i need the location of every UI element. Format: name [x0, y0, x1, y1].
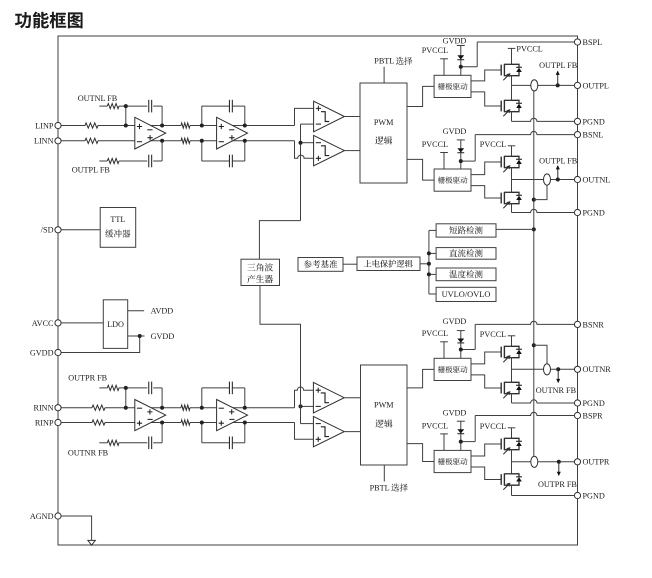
- wire feedback top: [153, 105, 162, 107]
- svg-text:LINN: LINN: [34, 137, 54, 146]
- svg-text:AVDD: AVDD: [151, 307, 174, 316]
- gate driver box bridge2: [434, 169, 471, 191]
- svg-text:PWM: PWM: [374, 118, 394, 127]
- wire low drain to output bridge1: [511, 85, 513, 100]
- current sense oval OUTPR: [531, 456, 538, 467]
- svg-text:PVCCL: PVCCL: [422, 46, 448, 55]
- wire triangle to comp1 minus: [301, 123, 314, 125]
- resistor interstage B: [181, 420, 190, 425]
- power GVDD bar bridge3: [457, 330, 465, 332]
- svg-text:BSPL: BSPL: [583, 38, 603, 47]
- wire detect spine: [428, 230, 430, 294]
- feedback tap OUTPL: [557, 74, 559, 86]
- svg-text:OUTPL FB: OUTPL FB: [539, 61, 578, 70]
- power PVCCL drain bridge3: [508, 335, 516, 337]
- wire low drain to output bridge3: [511, 369, 513, 382]
- wire signal to comparator 3: [295, 387, 314, 408]
- wire high source to output bridge3: [511, 358, 513, 370]
- comparator 1: [314, 101, 345, 132]
- wire GVDD vertical bridge1: [460, 46, 462, 76]
- wire PGND line bridge4: [512, 495, 575, 497]
- svg-text:OUTPR FB: OUTPR FB: [68, 373, 107, 382]
- resistor input B: [92, 420, 105, 425]
- gate driver box bridge1: [434, 75, 471, 97]
- wire reference to protection: [343, 263, 357, 265]
- junction GVDD bridge1: [459, 65, 463, 69]
- wire comp1 out: [344, 116, 360, 118]
- gate driver box bridge3: [434, 358, 471, 380]
- wire comp4 out: [344, 431, 360, 433]
- feedback cap3: [228, 100, 230, 113]
- svg-text:AVCC: AVCC: [32, 319, 54, 328]
- wire driver to high gate bridge4: [471, 444, 501, 456]
- PWM logic box top: [360, 83, 407, 183]
- svg-text:OUTNR FB: OUTNR FB: [68, 449, 109, 458]
- DC detect box: [436, 248, 496, 260]
- wire high source to output bridge4: [511, 450, 513, 462]
- junction sense OUTNR elbow: [532, 343, 536, 347]
- wire high source to output bridge2: [511, 168, 513, 180]
- svg-text:PGND: PGND: [583, 399, 605, 408]
- comparator 4: [313, 416, 344, 446]
- pin BSNL: [574, 132, 580, 138]
- svg-text:PVCCL: PVCCL: [422, 329, 448, 338]
- svg-text:AGND: AGND: [30, 512, 54, 521]
- svg-text:OUTPR: OUTPR: [583, 458, 610, 467]
- wire low drain to output bridge2: [511, 180, 513, 193]
- wire fb cap2 bottom: [201, 423, 203, 443]
- svg-text:BSNR: BSNR: [583, 320, 605, 329]
- gate driver box bridge4: [434, 450, 471, 472]
- pin AGND: [55, 513, 61, 519]
- UVLO/OVLO box: [436, 287, 496, 301]
- pin /SD: [55, 227, 61, 233]
- wire low source to PGND bridge3: [511, 394, 513, 403]
- wire BS rail bridge2: [461, 160, 475, 162]
- feedback stub bottom resistor: [99, 160, 107, 162]
- comparator 3: [313, 382, 344, 413]
- wire signal to comparator 2: [295, 141, 314, 159]
- wire driver to high gate bridge1: [471, 70, 501, 81]
- wire OUTNR sense elbow: [534, 345, 547, 363]
- wire comp2 out: [344, 150, 360, 152]
- svg-text:PBTL: PBTL: [370, 483, 390, 492]
- svg-text:PVCCL: PVCCL: [480, 330, 506, 339]
- transistor Q8 low-side: [500, 474, 502, 485]
- wire signal to comparator 1: [295, 108, 314, 125]
- wire comp3 out: [344, 397, 360, 399]
- op-amp second stage: [217, 117, 248, 149]
- feedback cap bottom: [148, 155, 150, 168]
- junction GVDD bridge4: [459, 440, 463, 444]
- wire output line bridge1: [512, 84, 575, 86]
- svg-text:GVDD: GVDD: [443, 37, 467, 46]
- IC boundary box: [58, 36, 578, 545]
- wire output line bridge3: [512, 368, 575, 370]
- triangle wave generator box: [241, 259, 280, 285]
- svg-text:UVLO/OVLO: UVLO/OVLO: [442, 290, 491, 299]
- svg-text:OUTNL: OUTNL: [583, 175, 611, 184]
- wire driver to low gate bridge3: [471, 375, 501, 388]
- pin AVCC: [55, 320, 61, 326]
- wire GVDD vertical bridge2: [460, 140, 462, 169]
- wire GVDD vertical bridge3: [460, 331, 462, 359]
- diode GVDD bridge1: [457, 55, 464, 59]
- svg-text:GVDD: GVDD: [30, 348, 54, 357]
- svg-text:OUTPL FB: OUTPL FB: [72, 166, 111, 175]
- feedback cap4: [228, 437, 230, 450]
- wire triangle top distribution: [259, 221, 300, 260]
- temperature detect box: [436, 268, 496, 281]
- wire triangle to comp4 minus: [301, 423, 314, 425]
- power GVDD bar bridge1: [457, 45, 465, 47]
- feedback tap OUTPR: [558, 462, 560, 473]
- wire BS rail bridge4: [461, 441, 475, 443]
- feedback cap4: [228, 155, 230, 168]
- pin PGND: [574, 209, 580, 215]
- transistor Q5 high-side: [500, 347, 502, 358]
- wire low drain to output bridge4: [511, 462, 513, 474]
- wire signal to comparator 4: [295, 423, 314, 440]
- feedback cap bottom: [148, 437, 150, 450]
- feedback cap top: [148, 100, 150, 113]
- pin OUTPR: [574, 459, 580, 465]
- feedback stub top resistor: [99, 387, 107, 389]
- junction GVDD bridge3: [459, 348, 463, 352]
- power PVCCL drain bridge1: [508, 47, 516, 49]
- wire low source to PGND bridge4: [511, 485, 513, 495]
- wire feedback bottom: [153, 442, 162, 444]
- power PVCCL bar bridge3: [440, 341, 448, 343]
- wire BS rail bridge3: [461, 349, 475, 351]
- power GVDD bar bridge4: [457, 420, 465, 422]
- pin OUTNR: [574, 366, 580, 372]
- feedback cap top: [148, 382, 150, 395]
- power PVCCL bar bridge4: [440, 433, 448, 435]
- wire low source to PGND bridge1: [511, 112, 513, 122]
- diode GVDD bridge2: [457, 148, 464, 152]
- diode GVDD bridge4: [457, 429, 464, 433]
- resistor input B: [85, 138, 98, 143]
- wire driver to high gate bridge3: [471, 352, 501, 364]
- transistor Q2 low-side: [500, 101, 502, 112]
- svg-text:OUTPL: OUTPL: [583, 81, 609, 90]
- power PVCCL drain bridge2: [508, 145, 516, 147]
- protection logic box: [357, 257, 420, 271]
- wire fb cap2 top: [201, 388, 203, 408]
- pin BSPR: [574, 412, 580, 418]
- feedback tap OUTNR: [557, 369, 559, 380]
- wire input line B: [61, 422, 92, 424]
- svg-text:OUTNR FB: OUTNR FB: [536, 386, 577, 395]
- svg-text:PGND: PGND: [583, 117, 605, 126]
- pin PGND: [574, 400, 580, 406]
- pin PGND: [574, 492, 580, 498]
- resistor input A: [92, 405, 105, 410]
- LDO box: [103, 300, 127, 349]
- wire PGND line bridge2: [512, 209, 575, 212]
- pin LINP: [55, 122, 61, 128]
- pin BSNR: [574, 321, 580, 327]
- pin GVDD: [55, 349, 61, 355]
- svg-text:GVDD: GVDD: [151, 332, 175, 341]
- svg-text:PVCCL: PVCCL: [516, 44, 542, 53]
- wire driver to low gate bridge2: [471, 186, 501, 198]
- wire triangle bottom distribution: [260, 286, 301, 424]
- pin RINN: [55, 405, 61, 411]
- svg-text:PBTL: PBTL: [374, 57, 394, 66]
- wire high source to output bridge1: [511, 76, 513, 86]
- pin LINN: [55, 138, 61, 144]
- transistor Q3 high-side: [500, 157, 502, 168]
- svg-text:PGND: PGND: [583, 208, 605, 217]
- resistor input A: [85, 123, 98, 128]
- pin OUTNL: [574, 176, 580, 182]
- wire short-circuit detect to sense: [496, 228, 534, 230]
- svg-text:RINP: RINP: [35, 418, 54, 427]
- current sense oval OUTNL: [544, 174, 551, 185]
- short-circuit detect box: [436, 224, 496, 237]
- svg-text:TTL: TTL: [110, 215, 125, 224]
- junction sense to short-circuit detect: [532, 227, 536, 231]
- wire PGND line bridge1: [512, 118, 575, 121]
- TTL buffer box: [100, 208, 136, 248]
- diode GVDD bridge3: [457, 339, 464, 343]
- svg-text:PGND: PGND: [583, 491, 605, 500]
- wire input line B: [61, 140, 85, 142]
- svg-text:GVDD: GVDD: [443, 317, 467, 326]
- op-amp second stage: [217, 400, 248, 431]
- current sense oval OUTNR: [544, 364, 551, 375]
- wire AGND: [61, 516, 92, 540]
- wire AVDD out: [128, 310, 144, 312]
- wire feedback top: [153, 387, 162, 389]
- PWM logic box bottom: [361, 365, 408, 465]
- reference box: [298, 258, 343, 272]
- pin PGND: [574, 118, 580, 124]
- pin OUTPL: [574, 82, 580, 88]
- wire output line bridge2: [512, 179, 575, 181]
- svg-text:BSNL: BSNL: [583, 131, 604, 140]
- wire low source to PGND bridge2: [511, 204, 513, 213]
- svg-text:LINP: LINP: [35, 121, 54, 130]
- transistor Q1 high-side: [500, 65, 502, 76]
- wire GVDD vertical bridge4: [460, 421, 462, 450]
- wire triangle to comp3 minus: [301, 405, 314, 407]
- svg-text:GVDD: GVDD: [443, 127, 467, 136]
- transistor Q6 low-side: [500, 383, 502, 394]
- resistor interstage B: [181, 138, 190, 143]
- svg-text:PVCCL: PVCCL: [480, 140, 506, 149]
- svg-text:RINN: RINN: [33, 404, 53, 413]
- svg-text:GVDD: GVDD: [443, 408, 467, 417]
- wire PWM to driver bridge2: [407, 159, 434, 180]
- wire PWM to driver bridge1: [407, 86, 434, 106]
- svg-text:OUTPR FB: OUTPR FB: [538, 480, 577, 489]
- transistor Q7 high-side: [500, 439, 502, 450]
- svg-text:PVCCL: PVCCL: [422, 421, 448, 430]
- feedback stub bottom resistor: [99, 442, 107, 444]
- wire PWM to driver bridge3: [407, 369, 434, 388]
- power GVDD bar bridge2: [457, 139, 465, 141]
- wire spine stubs: [429, 229, 436, 231]
- wire PWM to driver bridge4: [407, 444, 434, 462]
- power PVCCL drain bridge4: [508, 427, 516, 429]
- op-amp first stage: [135, 117, 166, 149]
- pin RINP: [55, 419, 61, 425]
- ground symbol: [88, 540, 95, 545]
- PBTL select top: [383, 67, 385, 83]
- title: [15, 12, 83, 29]
- current sense oval OUTPL: [531, 80, 538, 91]
- junction sense OUTNL elbow: [532, 198, 536, 202]
- wire AVCC to LDO: [61, 322, 103, 324]
- wire GVDD loop to pin: [61, 336, 140, 353]
- wire output line bridge4: [512, 461, 575, 463]
- svg-text:OUTPL FB: OUTPL FB: [539, 157, 578, 166]
- wire /SD to TTL buffer: [61, 229, 100, 231]
- svg-text:OUTNL FB: OUTNL FB: [78, 94, 118, 103]
- svg-text:BSPR: BSPR: [583, 411, 604, 420]
- wire driver to low gate bridge4: [471, 467, 501, 480]
- wire current sense vertical: [533, 91, 535, 456]
- svg-text:/SD: /SD: [41, 226, 54, 235]
- power PVCCL bar bridge2: [440, 152, 448, 154]
- wire driver to high gate bridge2: [471, 162, 501, 175]
- pin BSPL: [574, 39, 580, 45]
- wire feedback bottom: [153, 160, 162, 162]
- wire protection to spine: [420, 263, 429, 265]
- resistor interstage A: [181, 123, 190, 128]
- feedback cap3: [228, 382, 230, 395]
- svg-text:LDO: LDO: [107, 320, 124, 329]
- wire input line A: [61, 125, 85, 127]
- wire driver to low gate bridge1: [471, 92, 501, 106]
- transistor Q4 low-side: [500, 193, 502, 204]
- wire triangle to comp2 minus: [301, 142, 314, 144]
- svg-text:OUTNR: OUTNR: [583, 365, 612, 374]
- wire fb cap2 bottom: [201, 141, 203, 161]
- wire PGND line bridge3: [512, 400, 575, 403]
- svg-text:PVCCL: PVCCL: [422, 140, 448, 149]
- power PVCCL bar bridge1: [440, 58, 448, 60]
- svg-text:PWM: PWM: [374, 400, 394, 409]
- feedback tap OUTNL: [557, 168, 559, 180]
- wire BS rail bridge1: [461, 66, 477, 68]
- wire fb cap2 top: [201, 106, 203, 125]
- svg-text:PVCCL: PVCCL: [480, 422, 506, 431]
- comparator 2: [314, 135, 345, 165]
- wire input line A: [61, 407, 92, 409]
- wire GVDD out: [128, 335, 145, 337]
- wire OUTNL sense elbow: [534, 185, 547, 199]
- resistor interstage A: [181, 405, 190, 410]
- junction GVDD bridge2: [459, 159, 463, 163]
- op-amp first stage: [135, 400, 166, 431]
- PBTL select bottom: [383, 465, 385, 482]
- feedback stub top resistor: [99, 105, 107, 107]
